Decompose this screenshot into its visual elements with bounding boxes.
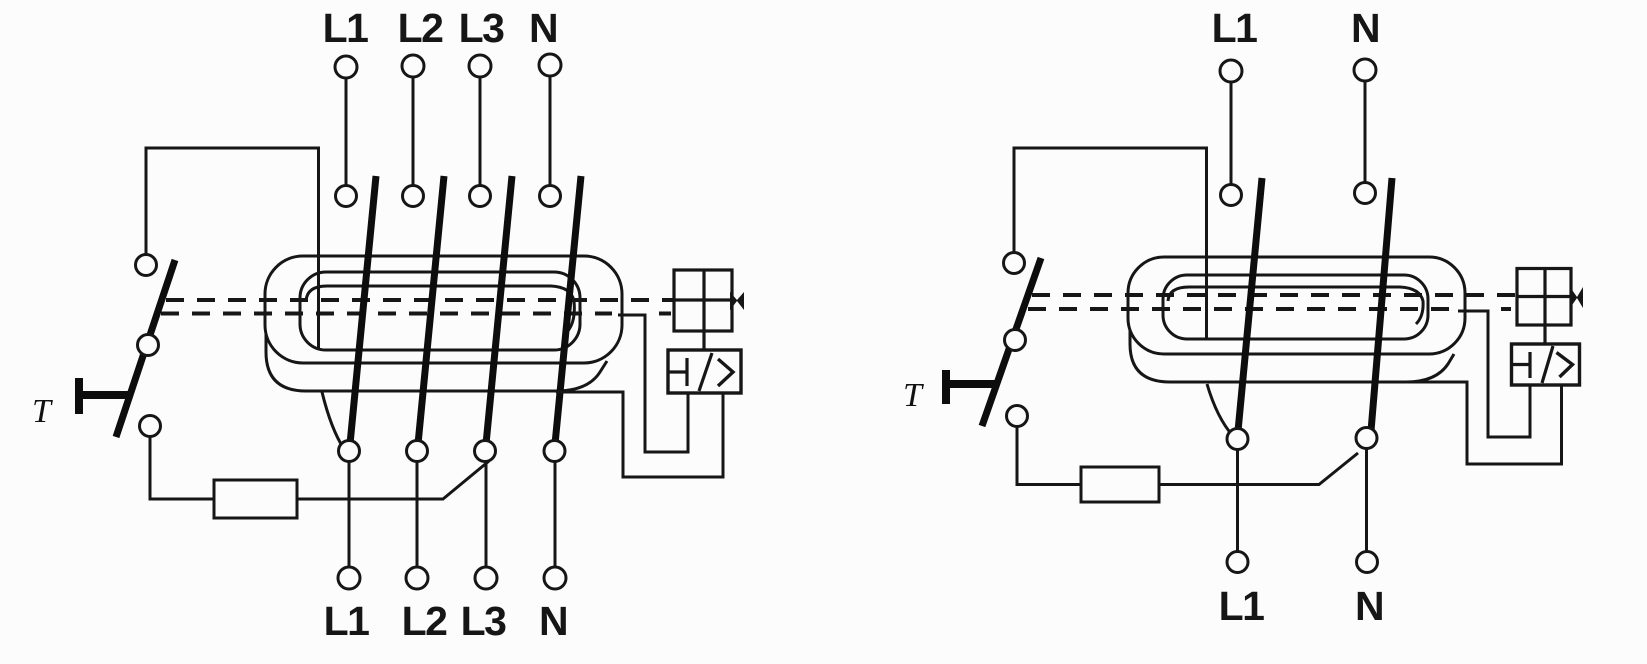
wire secondary inner <box>618 315 688 452</box>
trip coil box K1 <box>674 270 732 331</box>
terminal L1 top right <box>1220 60 1242 82</box>
contact test upper <box>136 255 157 276</box>
svg-text:L1: L1 <box>1219 583 1265 629</box>
secondary winding loop CT1 <box>322 392 344 449</box>
mechanical link dash segment right <box>1501 307 1511 311</box>
terminal L1 bottom <box>338 567 360 589</box>
wire L1 bottom right <box>1236 450 1239 551</box>
trip coil arrow right <box>1570 287 1583 308</box>
relay A1 symbol slash <box>699 353 712 391</box>
wire secondary inner right <box>1458 311 1530 437</box>
trip coil box K2 <box>1517 269 1571 326</box>
wire N bottom <box>554 462 557 567</box>
wire L3 top <box>479 77 482 185</box>
wire N top right <box>1364 81 1367 182</box>
wire secondary outer <box>556 392 723 477</box>
terminal N top <box>539 54 561 76</box>
mechanical link dashed lower <box>161 312 612 316</box>
contact L1 lower <box>339 441 360 462</box>
svg-text:N: N <box>539 598 567 644</box>
relay box A1 <box>668 350 741 393</box>
test button T lever <box>116 260 175 437</box>
contact L1 upper <box>336 186 357 207</box>
svg-text:N: N <box>529 5 557 51</box>
mechanical link dash segment <box>659 312 671 316</box>
mechanical link dashed upper <box>166 298 673 302</box>
contact test middle <box>138 335 159 356</box>
relay A1 symbol chevron <box>718 359 733 386</box>
conductor blade L2 <box>418 176 444 444</box>
contact L1 lower right <box>1227 429 1248 450</box>
contact N upper right <box>1355 183 1376 204</box>
trip coil actuating line <box>674 298 732 301</box>
wire resistor to L3 <box>297 461 489 499</box>
contact L1 upper right <box>1221 185 1242 206</box>
wire test-button to L1 conductor right <box>1014 148 1207 338</box>
contact N lower right <box>1356 428 1377 449</box>
wire resistor to N right <box>1159 453 1358 485</box>
terminal L1 top <box>335 56 357 78</box>
contact L2 upper <box>403 186 424 207</box>
svg-text:N: N <box>1355 583 1383 629</box>
svg-text:T: T <box>32 393 53 430</box>
svg-text:L1: L1 <box>323 5 369 51</box>
wire L2 top <box>412 77 415 185</box>
mechanical link dashed lower right <box>1028 307 1449 311</box>
conductor blade L3 <box>486 176 512 444</box>
conductor blade N right <box>1371 178 1392 431</box>
relay A1 symbol bar <box>668 358 687 386</box>
conductor blade L1 right <box>1238 178 1262 431</box>
contact N upper <box>540 186 561 207</box>
contact test middle right <box>1005 330 1026 351</box>
test button T handle horizontal bar right <box>946 380 998 388</box>
svg-text:N: N <box>1351 5 1379 51</box>
wire test-button to L1 conductor <box>146 148 319 349</box>
conductor blade N <box>555 176 581 444</box>
trip coil arrow <box>730 292 744 310</box>
conductor blade L1 <box>350 176 376 444</box>
svg-text:L1: L1 <box>1212 5 1258 51</box>
toroid core CT1 body <box>265 256 622 391</box>
contact L2 lower <box>407 441 428 462</box>
test button T handle vertical bar right <box>942 370 950 404</box>
wire trip coil to relay right <box>1543 325 1546 344</box>
contact N lower <box>544 441 565 462</box>
svg-text:L3: L3 <box>461 598 507 644</box>
contact L3 upper <box>470 186 491 207</box>
wire L1 top <box>345 78 348 185</box>
terminal L2 top <box>402 55 424 77</box>
toroid core CT2 body <box>1128 257 1465 382</box>
secondary winding loop CT2 <box>1207 384 1233 436</box>
contact test upper right <box>1004 253 1025 274</box>
relay A2 symbol slash <box>1542 346 1553 383</box>
terminal L3 bottom <box>475 567 497 589</box>
terminal N top right <box>1354 59 1376 81</box>
contact L3 lower <box>475 441 496 462</box>
terminal L1 bottom right <box>1227 552 1248 573</box>
wire secondary outer right <box>1408 382 1562 464</box>
test button T handle horizontal bar <box>79 391 128 399</box>
wire test lower contact to resistor right <box>1017 426 1081 485</box>
wire L2 bottom <box>416 462 419 567</box>
contact test lower right <box>1007 406 1028 427</box>
svg-text:L2: L2 <box>402 598 448 644</box>
wire N bottom right <box>1365 449 1368 551</box>
svg-text:L1: L1 <box>324 598 370 644</box>
test button T lever right <box>982 258 1041 426</box>
wire L1 top right <box>1230 82 1233 184</box>
trip coil plunger line <box>702 270 705 331</box>
relay A2 symbol chevron <box>1557 353 1573 378</box>
wire trip coil to relay <box>702 331 705 350</box>
relay A2 symbol bar <box>1511 352 1530 378</box>
test button T handle vertical bar <box>75 378 83 414</box>
mechanical link dashed upper right <box>1032 293 1516 297</box>
wire test lower contact to resistor <box>150 436 214 499</box>
wire L1 bottom <box>348 462 351 567</box>
relay box A2 <box>1512 344 1580 385</box>
svg-text:L3: L3 <box>459 5 505 51</box>
contact test lower <box>140 416 161 437</box>
terminal N bottom <box>544 567 566 589</box>
wire L3 bottom <box>485 462 488 567</box>
svg-text:T: T <box>903 377 924 414</box>
terminal L2 bottom <box>406 567 428 589</box>
resistor R1 <box>214 480 297 518</box>
trip coil plunger line right <box>1543 269 1546 326</box>
svg-text:L2: L2 <box>398 5 444 51</box>
terminal N bottom right <box>1357 552 1378 573</box>
trip coil actuating line right <box>1517 295 1571 298</box>
resistor R2 <box>1081 467 1159 502</box>
wire N top <box>549 76 552 185</box>
terminal L3 top <box>469 55 491 77</box>
